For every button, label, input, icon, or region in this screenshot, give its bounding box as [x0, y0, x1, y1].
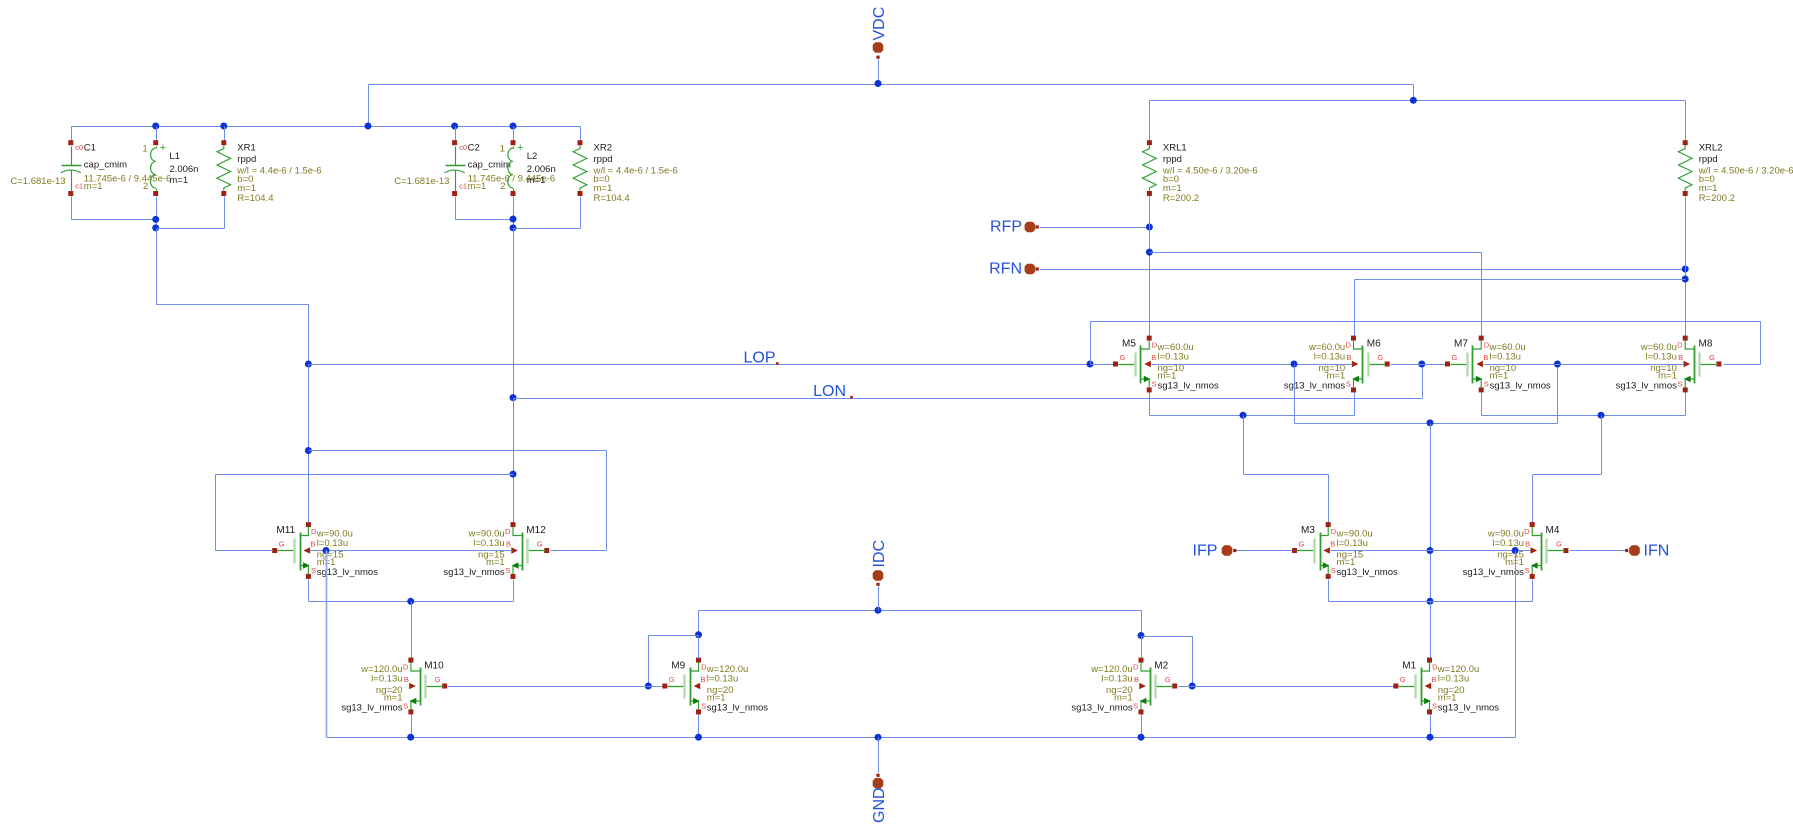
node tank1 bottom junctions	[152, 216, 159, 232]
svg-text:l=0.13u: l=0.13u	[1337, 538, 1368, 549]
wire M10 drain riser	[411, 602, 413, 659]
port RFN	[989, 261, 1039, 278]
svg-text:G: G	[1556, 539, 1562, 548]
wire IDC stub	[878, 587, 880, 611]
wire stubs tank tops	[72, 127, 581, 141]
transistor M2	[1071, 658, 1177, 715]
svg-text:l=0.13u: l=0.13u	[1490, 352, 1521, 363]
svg-text:B: B	[506, 540, 511, 549]
wire VDC stub	[878, 60, 880, 85]
node source junction right	[1598, 412, 1605, 419]
wire bulk riser right	[1557, 365, 1559, 424]
svg-text:D: D	[1524, 527, 1530, 536]
svg-text:M4: M4	[1546, 525, 1560, 536]
svg-text:RFP: RFP	[990, 219, 1022, 236]
svg-text:G: G	[1299, 539, 1305, 548]
wire bulk-IF vertical	[1430, 424, 1432, 602]
wire M10 source riser	[411, 715, 413, 738]
svg-text:l=0.13u: l=0.13u	[707, 674, 738, 685]
svg-text:l=0.13u: l=0.13u	[1438, 674, 1469, 685]
capacitor C2	[394, 140, 555, 196]
wire M2 drain riser	[1141, 637, 1143, 659]
wire L1 bottom riser	[156, 197, 158, 229]
wire M8 gate route	[1724, 322, 1761, 365]
svg-text:G: G	[1377, 353, 1383, 362]
wire M2-M1 gate wire	[1179, 686, 1394, 688]
svg-text:M10: M10	[424, 661, 444, 672]
node RFN junction	[1682, 266, 1689, 273]
transistor M12	[443, 522, 549, 579]
svg-text:c1: c1	[459, 182, 467, 191]
svg-text:sg13_lv_nmos: sg13_lv_nmos	[341, 703, 403, 714]
svg-text:+: +	[517, 142, 523, 154]
svg-text:B: B	[1483, 353, 1488, 362]
wire tank2 to LON riser	[513, 229, 515, 399]
svg-text:l=0.13u: l=0.13u	[473, 538, 504, 549]
svg-text:R=200.2: R=200.2	[1163, 193, 1199, 204]
svg-text:l=0.13u: l=0.13u	[317, 538, 348, 549]
node IF source junction	[1427, 598, 1434, 605]
wire tank1 to LOP riser	[157, 229, 309, 365]
wire M5-M6 sources	[1150, 393, 1355, 416]
svg-text:rppd: rppd	[237, 154, 256, 165]
svg-text:C1: C1	[84, 143, 96, 154]
wire RFN	[1040, 269, 1686, 271]
inductor L1	[142, 140, 198, 196]
svg-text:GND: GND	[871, 787, 888, 823]
svg-text:G: G	[1120, 353, 1126, 362]
svg-text:G: G	[1452, 353, 1458, 362]
wire LON	[514, 398, 1423, 400]
svg-text:LOP: LOP	[743, 350, 775, 367]
svg-text:sg13_lv_nmos: sg13_lv_nmos	[1438, 703, 1500, 714]
svg-text:l=0.13u: l=0.13u	[1492, 538, 1523, 549]
wire sources to M4 drain	[1533, 416, 1602, 523]
svg-text:m=1: m=1	[84, 181, 103, 192]
svg-text:D: D	[403, 662, 409, 671]
svg-text:G: G	[537, 539, 543, 548]
wire M11-M12 bulk	[311, 550, 513, 552]
svg-text:sg13_lv_nmos: sg13_lv_nmos	[1616, 381, 1678, 392]
wire M3-M4 sources	[1329, 580, 1533, 602]
wire VDC left riser	[368, 85, 370, 127]
svg-text:M8: M8	[1699, 339, 1713, 350]
svg-text:m=1: m=1	[527, 175, 546, 186]
wire M7-M8 sources	[1482, 393, 1686, 416]
wire M9 drain riser	[698, 636, 700, 659]
svg-text:S: S	[1525, 566, 1530, 575]
svg-text:2: 2	[143, 181, 148, 192]
transistor M5	[1113, 336, 1219, 393]
transistor M1	[1393, 658, 1499, 715]
port RFP	[990, 219, 1039, 236]
svg-text:S: S	[311, 566, 316, 575]
wire M4 gate to IFN	[1570, 550, 1626, 552]
svg-text:B: B	[310, 540, 315, 549]
svg-text:G: G	[1709, 353, 1715, 362]
node LON gate junction	[1418, 361, 1425, 368]
svg-text:LON: LON	[813, 383, 846, 400]
transistor M11	[272, 522, 378, 579]
port GND	[871, 774, 888, 823]
svg-text:M2: M2	[1154, 661, 1168, 672]
wire GND stub	[878, 738, 880, 773]
svg-text:S: S	[403, 701, 408, 710]
transistor M4	[1463, 522, 1569, 579]
svg-text:IFP: IFP	[1193, 543, 1218, 560]
svg-text:D: D	[1677, 340, 1683, 349]
resistor XRL2	[1678, 140, 1793, 204]
svg-text:l=0.13u: l=0.13u	[1158, 352, 1189, 363]
svg-text:sg13_lv_nmos: sg13_lv_nmos	[707, 703, 769, 714]
svg-text:S: S	[1331, 566, 1336, 575]
node bulk rail junction	[1427, 419, 1434, 426]
node ground rail junctions	[407, 734, 1433, 741]
wire M2 diode loop	[1142, 637, 1193, 687]
node bulk junction right	[1554, 361, 1561, 368]
svg-text:c0: c0	[75, 143, 83, 152]
wire sources to M3 drain	[1244, 416, 1329, 523]
svg-text:C=1.681e-13: C=1.681e-13	[10, 176, 65, 187]
wire LON riser to M6-M7 gates	[1422, 365, 1424, 399]
svg-text:sg13_lv_nmos: sg13_lv_nmos	[1463, 567, 1525, 578]
wire M9 source riser	[698, 715, 700, 738]
resistor XRL1	[1143, 140, 1258, 204]
port IFN	[1625, 543, 1669, 560]
svg-text:M11: M11	[276, 525, 295, 536]
wire XR2 bottom	[514, 197, 581, 229]
svg-text:+: +	[160, 142, 166, 154]
svg-text:M6: M6	[1367, 339, 1381, 350]
svg-text:R=104.4: R=104.4	[594, 193, 630, 204]
svg-text:sg13_lv_nmos: sg13_lv_nmos	[1284, 381, 1346, 392]
svg-text:C=1.681e-13: C=1.681e-13	[394, 176, 449, 187]
svg-text:m=1: m=1	[169, 175, 188, 186]
wire M7 drain branch	[1150, 253, 1482, 336]
wire M5 gate	[1091, 364, 1114, 366]
svg-text:R=200.2: R=200.2	[1699, 193, 1735, 204]
wire IDC rail	[699, 611, 1142, 637]
node LOP left junction	[305, 361, 312, 368]
node M2 diode junction	[1138, 632, 1145, 639]
svg-text:l=0.13u: l=0.13u	[1314, 352, 1345, 363]
svg-text:rppd: rppd	[1163, 154, 1182, 165]
svg-text:G: G	[279, 539, 285, 548]
svg-text:sg13_lv_nmos: sg13_lv_nmos	[443, 567, 505, 578]
wire LON riser to M12 drain	[513, 399, 515, 523]
wire XRL2 bottom riser to M8 drain	[1685, 197, 1687, 336]
svg-text:XRL2: XRL2	[1699, 143, 1723, 154]
resistor XR1	[217, 140, 322, 204]
node M9 gate junction	[645, 683, 652, 690]
svg-text:B: B	[701, 675, 706, 684]
transistor M10	[341, 658, 447, 715]
wire M1 drain riser	[1430, 602, 1432, 659]
wire IFP to M3 gate	[1237, 550, 1293, 552]
svg-text:m=1: m=1	[468, 181, 487, 192]
node M7 branch junction	[1146, 249, 1153, 256]
svg-text:B: B	[1330, 540, 1335, 549]
svg-text:VDC: VDC	[871, 7, 888, 41]
node bulk on IF gate row	[1427, 547, 1434, 554]
svg-text:B: B	[1134, 675, 1139, 684]
svg-text:2.006n: 2.006n	[527, 164, 556, 175]
node LOP right junction	[1087, 361, 1094, 368]
node bulk junction	[323, 547, 330, 554]
port IFP	[1193, 543, 1237, 560]
node M11 drain junction	[305, 447, 312, 454]
wire VDC right riser	[1413, 85, 1415, 101]
wire LOP top rail	[1091, 321, 1761, 323]
node tank rail junctions	[152, 123, 516, 130]
svg-text:sg13_lv_nmos: sg13_lv_nmos	[1490, 381, 1552, 392]
svg-text:1: 1	[500, 144, 505, 155]
wire LOP	[309, 364, 1091, 366]
svg-text:B: B	[1525, 540, 1530, 549]
svg-text:S: S	[1152, 379, 1157, 388]
node XRL rail junction	[1410, 97, 1417, 104]
svg-text:M1: M1	[1402, 661, 1416, 672]
transistor M9	[662, 658, 768, 715]
transistor M8	[1616, 336, 1722, 393]
svg-text:cap_cmim: cap_cmim	[468, 160, 511, 171]
node source junction left	[1240, 412, 1247, 419]
wire M7-M8 bulk	[1484, 364, 1685, 366]
svg-text:L2: L2	[527, 151, 538, 162]
node M6 branch junction	[1682, 276, 1689, 283]
svg-text:S: S	[701, 701, 706, 710]
transistor M7	[1445, 336, 1551, 393]
wire ground rail	[327, 737, 1516, 739]
svg-text:2.006n: 2.006n	[169, 164, 198, 175]
svg-text:B: B	[1678, 353, 1683, 362]
wire XRL1 bottom riser to M5 drain	[1149, 197, 1151, 336]
svg-text:M9: M9	[671, 661, 685, 672]
svg-text:l=0.13u: l=0.13u	[371, 674, 402, 685]
svg-text:G: G	[1400, 675, 1406, 684]
svg-text:B: B	[1151, 353, 1156, 362]
node VDC junction	[875, 80, 882, 87]
wire crosscouple M11D to M12G	[309, 451, 607, 551]
port IDC	[871, 540, 888, 586]
resistor XR2	[573, 140, 678, 204]
node bulk-rail junction	[1512, 547, 1519, 554]
wire bulk rail	[1295, 423, 1558, 425]
wire C1 bottom	[72, 197, 157, 220]
wire LOP riser to M11 drain	[308, 365, 310, 523]
svg-text:C2: C2	[468, 143, 480, 154]
wire M9 diode loop	[649, 636, 699, 687]
svg-text:2: 2	[500, 181, 505, 192]
svg-text:M5: M5	[1122, 339, 1136, 350]
svg-text:S: S	[1133, 701, 1138, 710]
net label LON	[813, 383, 853, 400]
svg-text:L1: L1	[169, 151, 180, 162]
svg-text:XR1: XR1	[237, 143, 255, 154]
svg-text:cap_cmim: cap_cmim	[84, 160, 127, 171]
node LON left junction	[510, 394, 517, 401]
svg-text:RFN: RFN	[989, 261, 1022, 278]
svg-text:XRL1: XRL1	[1163, 143, 1187, 154]
svg-text:c0: c0	[459, 143, 467, 152]
svg-text:G: G	[435, 675, 441, 684]
wire tank top rail	[72, 126, 581, 128]
node bulk junction left	[1291, 361, 1298, 368]
svg-text:rppd: rppd	[1699, 154, 1718, 165]
wire LOP riser	[1090, 322, 1092, 365]
wire bulk to bottom rail left	[326, 551, 328, 738]
wire M2 source riser	[1141, 715, 1143, 738]
wire M11-M12 sources	[309, 580, 514, 602]
svg-text:l=0.13u: l=0.13u	[1101, 674, 1132, 685]
wire M5-M6 bulk	[1152, 364, 1353, 366]
node M12 drain junction	[510, 471, 517, 478]
inductor L2	[500, 140, 556, 196]
svg-text:G: G	[1165, 675, 1171, 684]
svg-text:R=104.4: R=104.4	[237, 193, 273, 204]
node IDC junction	[875, 607, 882, 614]
svg-text:IDC: IDC	[871, 540, 888, 568]
port VDC	[871, 7, 888, 59]
svg-text:M3: M3	[1301, 525, 1315, 536]
svg-text:c1: c1	[75, 182, 83, 191]
svg-text:M7: M7	[1454, 339, 1468, 350]
svg-text:sg13_lv_nmos: sg13_lv_nmos	[1158, 381, 1220, 392]
svg-text:G: G	[669, 675, 675, 684]
svg-text:S: S	[505, 566, 510, 575]
svg-text:sg13_lv_nmos: sg13_lv_nmos	[1071, 703, 1133, 714]
node M10 drain junction	[407, 598, 414, 605]
svg-text:S: S	[1484, 379, 1489, 388]
svg-text:rppd: rppd	[594, 154, 613, 165]
node M2 gate junction	[1189, 683, 1196, 690]
svg-text:M12: M12	[526, 525, 546, 536]
wire stubs XRL tops	[1150, 101, 1686, 141]
transistor M3	[1292, 522, 1398, 579]
net label LOP	[743, 350, 778, 367]
svg-text:IFN: IFN	[1644, 543, 1670, 560]
svg-text:sg13_lv_nmos: sg13_lv_nmos	[1337, 567, 1399, 578]
wire bulk to bottom rail right	[1515, 551, 1517, 738]
wire C2 bottom	[456, 197, 514, 220]
wire crosscouple M12D to M11G	[216, 475, 514, 551]
wire RFP	[1040, 227, 1150, 229]
svg-text:XR2: XR2	[594, 143, 612, 154]
svg-text:S: S	[1678, 379, 1683, 388]
node tank2 bottom junctions	[510, 216, 517, 232]
wire M10-M9 gate wire	[448, 686, 663, 688]
node RFP junction	[1146, 224, 1153, 231]
wire M1 source riser	[1430, 715, 1432, 738]
svg-text:D: D	[1133, 662, 1139, 671]
node M9 diode junction	[695, 631, 702, 638]
svg-text:1: 1	[142, 144, 147, 155]
svg-text:D: D	[505, 527, 511, 536]
svg-text:B: B	[404, 675, 409, 684]
wire M6 drain branch	[1355, 280, 1686, 336]
wire bulk riser left	[1294, 365, 1296, 424]
svg-text:l=0.13u: l=0.13u	[1645, 352, 1676, 363]
svg-text:B: B	[1432, 675, 1437, 684]
wire XR1 bottom	[157, 197, 225, 229]
svg-text:D: D	[1345, 340, 1351, 349]
wire VDC top rail	[369, 84, 1414, 86]
svg-text:S: S	[1432, 701, 1437, 710]
capacitor C1	[10, 140, 171, 196]
transistor M6	[1284, 336, 1390, 393]
wire M3-M4 bulk	[1331, 550, 1531, 552]
wire XRL top rail	[1150, 100, 1686, 102]
svg-text:B: B	[1346, 353, 1351, 362]
wire M6-M7 gate wire	[1391, 364, 1446, 366]
svg-text:S: S	[1346, 379, 1351, 388]
wire L2 bottom riser	[513, 197, 515, 229]
